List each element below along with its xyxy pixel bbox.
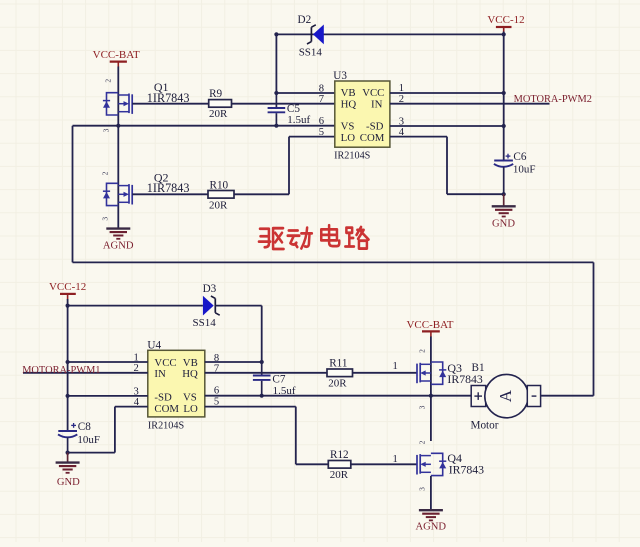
capacitor C5 (268, 93, 286, 126)
svg-text:IN: IN (371, 99, 383, 111)
svg-text:IR2104S: IR2104S (148, 421, 185, 432)
value 1IR7843 of Q1 (147, 91, 190, 105)
U4 pin name VCC (154, 357, 176, 369)
wire R9 to U3 pin 7 HO (232, 103, 335, 105)
value 20R of R9 (209, 108, 228, 120)
svg-text:5: 5 (319, 127, 324, 138)
wire VCC-12 bottom rail vertical (67, 299, 69, 431)
label D2 (298, 14, 312, 26)
ground GND below C8 (56, 453, 81, 488)
capacitor C6 polarized (494, 154, 513, 195)
svg-text:IN: IN (154, 368, 166, 380)
label C5 (287, 103, 300, 115)
wire half bridge Q3-Q4 vertical (430, 396, 432, 441)
svg-text:VS: VS (341, 121, 355, 133)
wire U4 pin 8 to C7 top (205, 361, 262, 363)
U4 pin number 1 (134, 352, 139, 363)
wire motor node to motor + terminal (431, 395, 471, 397)
wire motor - terminal to loop (541, 395, 594, 397)
wire R11 to Q3 gate (353, 372, 418, 374)
wire Q3 drain from VCC-BAT (430, 337, 432, 396)
wire U4 pin 1 to rail (68, 361, 148, 363)
U3 pin name COM (360, 132, 385, 144)
wire Q4 source down (430, 476, 432, 510)
op-amp U3 IR2104S body (335, 81, 390, 147)
svg-text:A: A (496, 389, 515, 402)
wire Q1-Q2 half bridge vertical (117, 126, 119, 229)
wire VCC-12 vertical rail (503, 32, 505, 161)
pin number 1 of Q3 gate (393, 361, 398, 372)
power port VCC-BAT (top left) (93, 49, 140, 67)
svg-text:10uF: 10uF (513, 163, 536, 175)
svg-text:COM: COM (360, 132, 385, 144)
svg-text:VCC: VCC (362, 87, 384, 99)
wire U4 pin 3 to rail (68, 395, 148, 397)
label R9 (209, 88, 222, 100)
wire U4 pin 7 to R11 (205, 372, 327, 374)
value 20R of R10 (209, 200, 228, 212)
U3 pin number 8 (319, 83, 324, 94)
diode D2 (307, 25, 324, 45)
wire U3 pin 3 to VCC-12 rail (390, 125, 504, 127)
label C8 (78, 421, 91, 433)
power port VCC-12 (top right) (487, 14, 524, 32)
svg-text:-SD: -SD (154, 391, 172, 403)
U4 pin name COM (154, 403, 179, 415)
svg-text:MOTORA-PWM2: MOTORA-PWM2 (514, 94, 592, 105)
svg-text:AGND: AGND (103, 240, 134, 251)
wire R10 to corner (234, 193, 289, 195)
svg-text:D2: D2 (298, 14, 312, 26)
wire Q1 drain from VCC-BAT (117, 67, 119, 126)
svg-text:6: 6 (214, 385, 219, 396)
node junction pin1-rail (66, 360, 70, 364)
svg-text:20R: 20R (328, 377, 347, 389)
svg-text:C6: C6 (513, 151, 526, 163)
resistor R9 (209, 100, 232, 108)
transistor Q4 (417, 453, 446, 475)
U3 pin number 3 (399, 116, 404, 127)
wire D2 cathode vertical (275, 34, 277, 93)
diode D3 (203, 296, 220, 316)
label Q2 (154, 170, 169, 184)
pin number 2 of Q1 drain (104, 79, 113, 83)
svg-text:10uF: 10uF (77, 434, 100, 446)
node B junction Q3 source motor node (429, 394, 433, 398)
wire U3 pin 1 to VCC-12 rail (390, 92, 504, 94)
value IR7843 of Q3 (447, 372, 482, 386)
value IR7843 of Q4 (449, 462, 484, 476)
svg-text:R12: R12 (330, 449, 349, 461)
svg-text:-SD: -SD (366, 121, 384, 133)
value 10uF of C6 (513, 163, 536, 175)
wire corner down to VB node of U4 (261, 306, 263, 362)
node junction VCC-12 at top wire (502, 32, 506, 36)
U4 pin number 3 (134, 386, 139, 397)
label C6 (513, 151, 526, 163)
wire Q1 gate to R9 (132, 103, 209, 105)
pin number 2 of Q3 drain (418, 349, 427, 353)
node junction pin1-VCC12 (502, 91, 506, 95)
node A junction Q1 source (116, 124, 120, 128)
pin number 2 of Q4 drain (418, 440, 427, 444)
value 20R of R12 (330, 469, 349, 481)
ground AGND below Q4 (415, 510, 446, 532)
value IR2104S of U3 (334, 151, 371, 162)
svg-text:U3: U3 (333, 70, 347, 82)
pin number 1 of Q4 gate (393, 454, 398, 465)
resistor R11 (327, 369, 353, 377)
node junction C6 bottom (502, 192, 506, 196)
svg-text:R10: R10 (210, 179, 229, 191)
label C7 (272, 373, 285, 385)
U3 pin name IN (371, 99, 383, 111)
U4 pin number 2 (134, 363, 139, 374)
resistor R12 (328, 461, 351, 469)
wire R12 to Q4 gate (351, 463, 418, 465)
svg-text:1IR7843: 1IR7843 (147, 91, 190, 105)
U4 pin number 7 (214, 364, 219, 375)
svg-text:8: 8 (319, 83, 324, 94)
title 驱动电路 (drive circuit) (259, 225, 369, 249)
svg-text:IR7843: IR7843 (449, 462, 484, 476)
svg-text:VCC-BAT: VCC-BAT (406, 319, 453, 331)
svg-text:HQ: HQ (341, 99, 357, 111)
U3 pin name VS (341, 121, 355, 133)
svg-text:COM: COM (154, 403, 179, 415)
svg-text:GND: GND (492, 219, 515, 230)
label Q4 (447, 451, 462, 465)
pin number 3 of Q1 source (102, 128, 111, 132)
op-amp U4 IR2104S body (148, 350, 205, 417)
U3 pin number 4 (399, 127, 405, 138)
svg-text:VCC-12: VCC-12 (49, 281, 86, 293)
label B1 (472, 362, 485, 374)
value 1.5uf of C7 (273, 385, 296, 397)
label Q1 (154, 80, 169, 94)
node junction rail-D3 wire (66, 304, 70, 308)
U3 pin name -SD (366, 121, 384, 133)
U4 pin name VS (183, 391, 197, 403)
label R12 (330, 449, 349, 461)
svg-text:VCC: VCC (154, 357, 176, 369)
wire big loop left vertical (72, 126, 74, 263)
node junction pin3-rail (66, 394, 70, 398)
value 1IR7843 of Q2 (147, 181, 190, 195)
U4 pin number 8 (214, 353, 219, 364)
pin number 3 of Q2 source (101, 217, 110, 221)
svg-text:VB: VB (341, 87, 356, 99)
svg-text:VCC-12: VCC-12 (487, 14, 524, 26)
U4 pin number 5 (214, 397, 219, 408)
svg-text:20R: 20R (209, 108, 228, 120)
svg-text:2: 2 (104, 79, 113, 83)
svg-text:2: 2 (418, 440, 427, 444)
U3 pin name LO (341, 132, 356, 144)
wire U3 pin 4 COM route (390, 137, 504, 195)
U4 pin name IN (154, 368, 166, 380)
svg-text:C8: C8 (78, 421, 91, 433)
wire U4 pin 4 COM route (68, 407, 148, 453)
svg-text:R11: R11 (329, 358, 347, 370)
U4 pin number 6 (214, 385, 219, 396)
svg-text:1.5uf: 1.5uf (287, 114, 310, 126)
node VB junction at C5 top (274, 91, 278, 95)
label Q3 (447, 361, 462, 375)
svg-text:GND: GND (57, 477, 80, 488)
U3 pin number 1 (399, 83, 404, 94)
ground GND below C6 (492, 194, 516, 229)
svg-text:1IR7843: 1IR7843 (147, 181, 190, 195)
U4 pin name -SD (154, 391, 172, 403)
svg-text:7: 7 (319, 94, 324, 105)
node junction pin3-VCC12 (502, 124, 506, 128)
ground AGND below Q2 (103, 229, 134, 252)
value IR2104S of U4 (148, 421, 185, 432)
wire U4 pin 2 MOTORA-PWM1 (23, 372, 148, 374)
svg-text:3: 3 (102, 128, 111, 132)
transistor Q2 (103, 183, 132, 205)
svg-text:AGND: AGND (415, 522, 446, 533)
resistor R10 (208, 191, 234, 199)
wire corner up to U3 pin 5 (289, 137, 335, 195)
wire big loop bottom horizontal (73, 261, 594, 263)
U3 pin number 2 (399, 94, 404, 105)
U3 pin name VCC (362, 87, 384, 99)
svg-text:VB: VB (183, 357, 198, 369)
svg-text:HQ: HQ (182, 368, 198, 380)
node junction top left of D2 wire (274, 32, 278, 36)
U4 pin name VB (183, 357, 198, 369)
svg-text:6: 6 (319, 116, 324, 127)
wire VCC-12 to D3 anode (68, 305, 203, 307)
svg-text:C5: C5 (287, 103, 300, 115)
motor B1 (471, 374, 540, 417)
label U4 (147, 339, 161, 351)
label R11 (329, 358, 347, 370)
svg-text:2: 2 (101, 171, 110, 175)
svg-text:LO: LO (341, 132, 356, 144)
value SS14 of D3 (193, 317, 217, 329)
pin number 2 of Q2 drain (101, 171, 110, 175)
svg-text:B1: B1 (472, 362, 485, 374)
pin number 3 of Q4 source (418, 487, 427, 491)
wire U4 pin 6 VS to motor node (205, 395, 431, 397)
U3 pin name HQ (341, 99, 357, 111)
node junction C7 bottom (260, 394, 264, 398)
value 20R of R11 (328, 377, 347, 389)
wire D3 cathode to corner (216, 305, 262, 307)
label D3 (203, 283, 217, 295)
net label MOTORA-PWM2 (514, 94, 592, 105)
net label MOTORA-PWM1 (22, 365, 100, 376)
svg-text:2: 2 (418, 349, 427, 353)
transistor Q1 (103, 93, 132, 115)
svg-text:1: 1 (393, 454, 398, 465)
U3 pin name VB (341, 87, 356, 99)
power port VCC-BAT (bottom) (406, 319, 453, 337)
node junction pin8-C7 (260, 360, 264, 364)
node junction at C5 bottom (274, 124, 278, 128)
capacitor C7 (253, 362, 271, 396)
svg-text:VCC-BAT: VCC-BAT (93, 49, 140, 61)
svg-text:D3: D3 (203, 283, 217, 295)
U3 pin number 5 (319, 127, 324, 138)
svg-text:1: 1 (393, 361, 398, 372)
svg-text:SS14: SS14 (193, 317, 217, 329)
svg-text:C7: C7 (272, 373, 285, 385)
svg-text:U4: U4 (147, 339, 161, 351)
svg-text:LO: LO (183, 403, 198, 415)
svg-text:20R: 20R (209, 200, 228, 212)
wire big loop right vertical (593, 262, 595, 395)
svg-text:20R: 20R (330, 469, 349, 481)
U4 pin name HQ (182, 368, 198, 380)
label R10 (210, 179, 229, 191)
wire phase-A row to U3 pin 6 (73, 125, 335, 127)
U4 pin number 4 (134, 397, 140, 408)
svg-text:3: 3 (418, 405, 427, 409)
svg-text:Motor: Motor (471, 419, 499, 431)
svg-text:3: 3 (418, 487, 427, 491)
wire VB node to U3 pin 8 (276, 92, 334, 94)
label Motor (471, 419, 499, 431)
wire Q2 gate to R10 (132, 193, 208, 195)
value SS14 of D2 (299, 47, 323, 59)
label U3 (333, 70, 347, 82)
capacitor C8 polarized (58, 423, 77, 453)
transistor Q3 (417, 362, 446, 384)
wire U4 pin 5 LO route (205, 407, 328, 465)
svg-text:MOTORA-PWM1: MOTORA-PWM1 (22, 365, 100, 376)
value 1.5uf of C5 (287, 114, 310, 126)
pin number 3 of Q3 source (418, 405, 427, 409)
svg-text:SS14: SS14 (299, 47, 323, 59)
power port VCC-12 (bottom left) (49, 281, 86, 300)
value 10uF of C8 (77, 434, 100, 446)
wire bootstrap top horizontal (276, 33, 503, 35)
U4 pin name LO (183, 403, 198, 415)
node junction C8 bottom (66, 451, 70, 455)
U3 pin number 7 (319, 94, 324, 105)
svg-text:3: 3 (101, 217, 110, 221)
svg-text:R9: R9 (209, 88, 222, 100)
svg-text:VS: VS (183, 391, 197, 403)
svg-text:IR2104S: IR2104S (334, 151, 371, 162)
U3 pin number 6 (319, 116, 324, 127)
wire U3 pin 2 MOTORA-PWM2 (390, 103, 550, 105)
